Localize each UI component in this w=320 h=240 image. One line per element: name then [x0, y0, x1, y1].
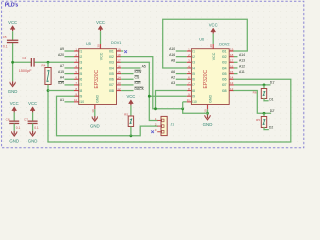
svg-text:A9: A9: [60, 47, 64, 51]
svg-text:GND: GND: [96, 95, 100, 103]
svg-text:I2: I2: [80, 55, 83, 59]
svg-text:D2': D2': [270, 109, 275, 113]
svg-text:D1': D1': [270, 80, 275, 84]
svg-text:A8: A8: [171, 59, 175, 63]
svg-text:D1: D1: [269, 97, 273, 101]
svg-text:A3: A3: [171, 81, 175, 85]
svg-text:A15: A15: [58, 70, 64, 74]
svg-text:D2: D2: [269, 126, 273, 130]
svg-text:I1: I1: [192, 49, 195, 53]
svg-text:A11: A11: [239, 70, 245, 74]
svg-text:A2: A2: [171, 75, 175, 79]
svg-text:I5: I5: [80, 72, 83, 76]
svg-text:VCC: VCC: [100, 52, 104, 60]
svg-text:15: 15: [230, 70, 234, 74]
svg-text:15: 15: [117, 70, 121, 74]
svg-text:DOV2: DOV2: [219, 43, 229, 47]
svg-text:17: 17: [117, 59, 121, 63]
svg-text:I10: I10: [192, 100, 197, 104]
svg-text:I4: I4: [192, 66, 195, 70]
svg-text:C7: C7: [24, 117, 28, 121]
svg-text:A16: A16: [169, 53, 175, 57]
svg-text:20: 20: [209, 44, 213, 48]
svg-text:C6: C6: [6, 117, 10, 121]
svg-text:12: 12: [230, 87, 234, 91]
svg-text:I3: I3: [80, 61, 83, 65]
svg-text:I07: I07: [222, 83, 227, 87]
svg-text:16: 16: [230, 64, 234, 68]
svg-text:GND: GND: [8, 89, 18, 94]
svg-text:I08: I08: [222, 89, 227, 93]
svg-text:I04: I04: [109, 66, 114, 70]
svg-text:I8: I8: [80, 89, 83, 93]
svg-text:VCC: VCC: [8, 20, 17, 25]
svg-text:I4: I4: [80, 66, 83, 70]
svg-text:VCC: VCC: [126, 94, 135, 99]
svg-text:19: 19: [230, 47, 234, 51]
svg-text:0.1: 0.1: [16, 126, 21, 130]
svg-text:14: 14: [117, 76, 121, 80]
svg-text:I7: I7: [80, 83, 83, 87]
svg-text:12: 12: [117, 87, 121, 91]
svg-text:I05: I05: [109, 72, 114, 76]
svg-text:CS: CS: [135, 76, 140, 80]
svg-text:A12: A12: [239, 64, 245, 68]
svg-text:GND: GND: [28, 138, 38, 143]
svg-text:EP320C: EP320C: [203, 69, 209, 88]
svg-text:IOR: IOR: [58, 81, 65, 85]
svg-text:16: 16: [117, 64, 121, 68]
svg-text:11: 11: [187, 98, 190, 102]
svg-text:I6: I6: [80, 78, 83, 82]
svg-text:I03: I03: [222, 61, 227, 65]
svg-text:A13: A13: [239, 59, 245, 63]
svg-text:I01: I01: [109, 49, 114, 53]
svg-text:U5: U5: [86, 42, 91, 46]
svg-text:I02: I02: [109, 55, 114, 59]
svg-text:A5: A5: [142, 64, 146, 68]
svg-text:I3: I3: [192, 61, 195, 65]
svg-text:GND: GND: [203, 122, 213, 127]
svg-text:A10: A10: [169, 47, 175, 51]
svg-text:A14: A14: [239, 53, 245, 57]
svg-text:A1: A1: [60, 98, 64, 102]
svg-text:14: 14: [230, 76, 234, 80]
svg-text:19: 19: [117, 47, 121, 51]
svg-text:R4: R4: [42, 63, 46, 67]
svg-text:I5: I5: [192, 72, 195, 76]
svg-text:EP320C: EP320C: [94, 69, 100, 88]
svg-text:0.1: 0.1: [3, 44, 8, 48]
svg-text:0.1: 0.1: [34, 126, 39, 130]
svg-text:DACK: DACK: [135, 87, 145, 91]
svg-text:18: 18: [117, 53, 121, 57]
svg-text:13: 13: [117, 81, 121, 85]
svg-text:I9: I9: [80, 95, 83, 99]
svg-text:J1: J1: [171, 123, 175, 127]
svg-text:18: 18: [230, 53, 234, 57]
svg-text:R5: R5: [124, 112, 128, 116]
svg-text:R5: R5: [256, 118, 260, 122]
svg-text:I6: I6: [192, 78, 195, 82]
svg-text:I08: I08: [109, 89, 114, 93]
svg-text:GND: GND: [9, 138, 19, 143]
svg-text:I2: I2: [192, 55, 195, 59]
svg-text:U6: U6: [199, 38, 204, 42]
svg-text:GND: GND: [90, 124, 100, 129]
svg-text:I02: I02: [222, 55, 227, 59]
svg-text:C5: C5: [3, 35, 7, 39]
svg-text:I04: I04: [222, 66, 227, 70]
svg-text:IOW: IOW: [135, 70, 143, 74]
svg-text:I9: I9: [192, 95, 195, 99]
svg-text:I01: I01: [222, 49, 227, 53]
svg-text:VCC: VCC: [209, 22, 218, 27]
svg-text:VCC: VCC: [10, 101, 19, 106]
svg-text:A20: A20: [58, 53, 64, 57]
svg-text:I10: I10: [80, 100, 85, 104]
svg-text:IOR: IOR: [135, 81, 142, 85]
svg-text:I1: I1: [80, 49, 83, 53]
svg-text:1500pF: 1500pF: [19, 69, 33, 73]
svg-text:20: 20: [97, 44, 101, 48]
svg-text:VCC: VCC: [96, 20, 105, 25]
svg-text:C4: C4: [22, 56, 26, 60]
svg-text:13: 13: [230, 81, 234, 85]
svg-text:I8: I8: [192, 89, 195, 93]
svg-text:A4: A4: [60, 75, 64, 79]
svg-text:VCC: VCC: [28, 101, 37, 106]
svg-text:I06: I06: [222, 78, 227, 82]
svg-text:GND: GND: [208, 95, 212, 103]
svg-text:A6: A6: [171, 70, 175, 74]
svg-text:PLD's: PLD's: [5, 3, 19, 9]
svg-text:17: 17: [230, 59, 234, 63]
svg-text:I05: I05: [222, 72, 227, 76]
svg-text:I7: I7: [192, 83, 195, 87]
svg-text:I07: I07: [109, 83, 114, 87]
svg-text:A7: A7: [60, 64, 64, 68]
svg-text:11: 11: [74, 98, 77, 102]
svg-text:I06: I06: [109, 78, 114, 82]
svg-text:VCC: VCC: [212, 52, 216, 60]
svg-text:DOV1: DOV1: [111, 41, 121, 45]
svg-text:I03: I03: [109, 61, 114, 65]
